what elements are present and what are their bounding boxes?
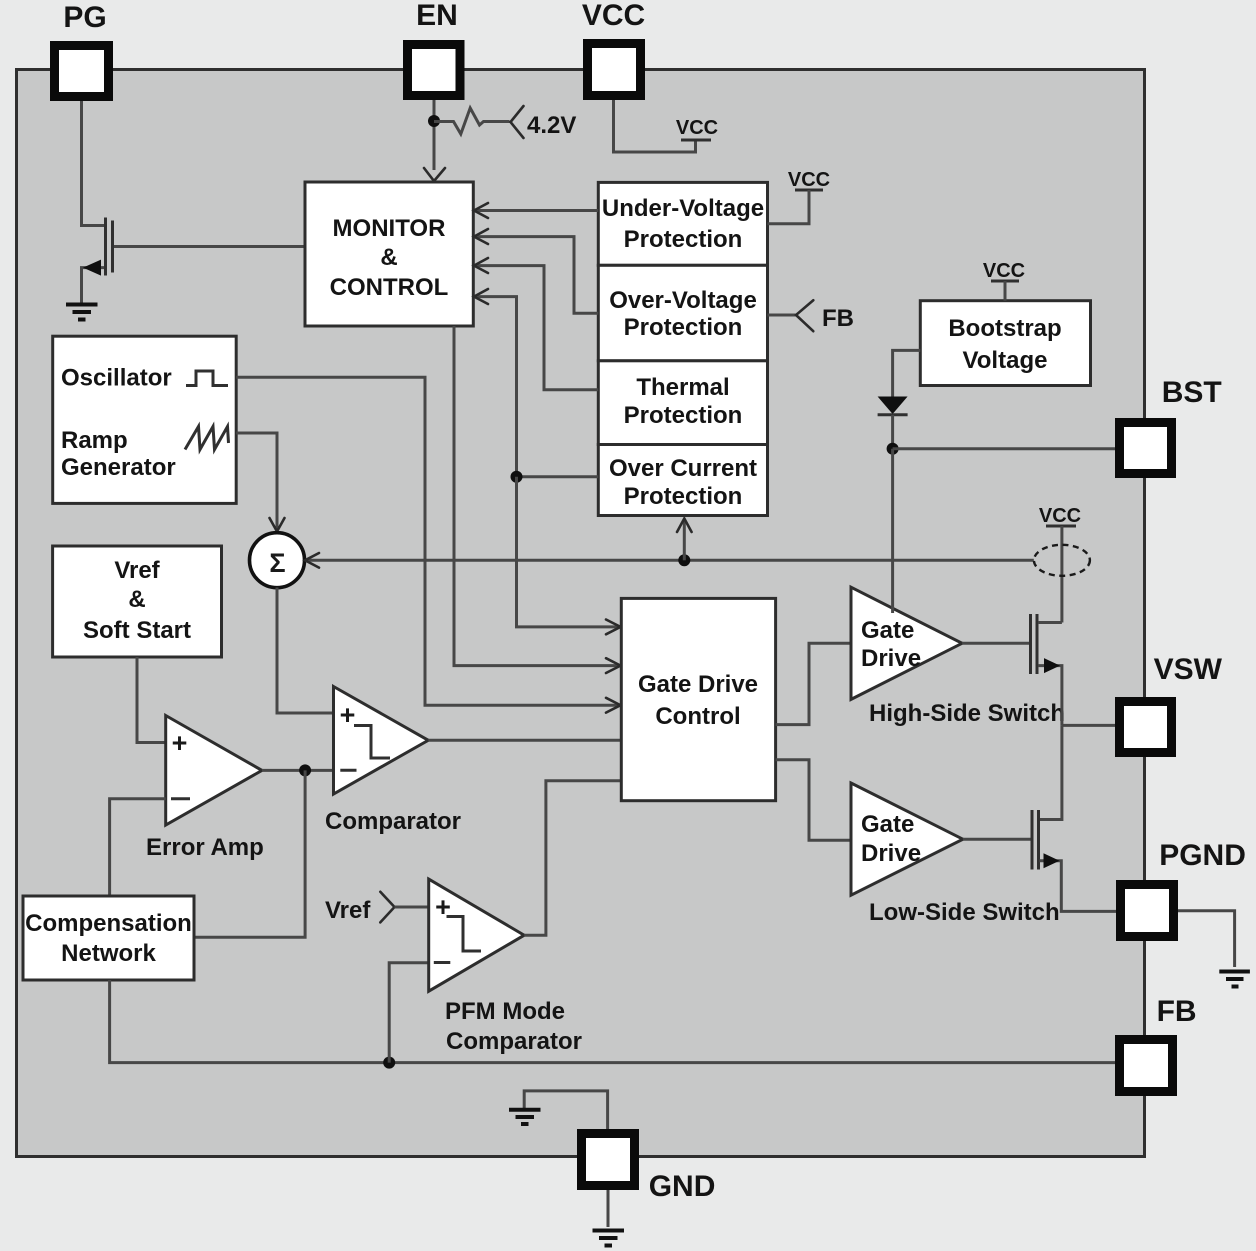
- svg-text:BST: BST: [1162, 376, 1222, 409]
- pin EN: [408, 45, 461, 96]
- diode D1: [878, 397, 908, 449]
- transistor Q3 Low-Side Switch: [1032, 810, 1116, 911]
- svg-text:MONITOR: MONITOR: [333, 215, 446, 242]
- svg-text:Σ: Σ: [269, 548, 285, 578]
- wire oscillator output to GDC in3: [236, 377, 620, 705]
- wire Vref box to error amp +: [137, 657, 166, 743]
- ground near GND pin: [509, 1091, 608, 1129]
- wire EN pin down: [433, 100, 436, 170]
- arrow into M&C (UVP): [474, 203, 488, 218]
- op-amp Error Amp: [146, 716, 264, 862]
- pin VSW: [1120, 702, 1172, 753]
- svg-text:CONTROL: CONTROL: [330, 274, 449, 301]
- VCC supply symbol near UVP: [768, 169, 831, 224]
- wire VSW node: [1062, 724, 1115, 727]
- node EN junction: [428, 115, 440, 127]
- svg-text:Low-Side Switch: Low-Side Switch: [869, 899, 1060, 926]
- current sense dashed ellipse: [1034, 545, 1090, 576]
- svg-text:GND: GND: [649, 1170, 716, 1203]
- arrow into summer right: [305, 553, 319, 568]
- svg-text:Protection: Protection: [624, 402, 743, 429]
- svg-text:Gate: Gate: [861, 617, 914, 644]
- wire Thermal to M&C: [474, 266, 598, 390]
- svg-text:VSW: VSW: [1154, 653, 1223, 686]
- FB input chevron at OVP: [768, 300, 855, 332]
- wire comp network bottom to FB line: [110, 980, 1115, 1063]
- svg-text:Voltage: Voltage: [963, 347, 1048, 374]
- wire junction down to Gate Drive Control in1: [517, 477, 621, 627]
- svg-text:+: +: [340, 700, 356, 730]
- svg-text:VCC: VCC: [582, 0, 645, 32]
- block Gate Drive Control: [621, 598, 775, 800]
- arrow into M&C (OCP): [474, 289, 488, 304]
- op-amp Comparator: [325, 687, 461, 836]
- block Oscillator / Ramp Generator: [53, 336, 237, 503]
- wire comp network to error amp minus: [110, 799, 166, 896]
- svg-text:Comparator: Comparator: [325, 808, 461, 835]
- svg-text:Generator: Generator: [61, 454, 176, 481]
- svg-text:Protection: Protection: [624, 483, 743, 510]
- svg-text:Gate: Gate: [861, 811, 914, 838]
- wire junction up to OCP: [683, 520, 686, 560]
- pin VCC: [588, 44, 641, 96]
- block Compensation Network: [23, 896, 194, 980]
- svg-text:Bootstrap: Bootstrap: [948, 315, 1061, 342]
- svg-text:FB: FB: [822, 305, 854, 332]
- wire PGND to external ground: [1178, 911, 1235, 967]
- node FB line junction: [383, 1057, 395, 1069]
- svg-text:VCC: VCC: [983, 260, 1025, 282]
- transistor Q2 High-Side Switch: [1031, 614, 1062, 725]
- wire VCC pin to VCC rail: [614, 100, 696, 152]
- wire UVP to M&C: [474, 209, 598, 212]
- wire Vref to PFM +: [395, 906, 429, 909]
- wire junction to BST pin: [893, 447, 1115, 450]
- svg-text:Compensation: Compensation: [25, 910, 192, 937]
- node sense line junction: [678, 554, 690, 566]
- wire Bootstrap to diode: [893, 350, 921, 397]
- svg-text:Oscillator: Oscillator: [61, 365, 172, 392]
- svg-text:Error Amp: Error Amp: [146, 834, 264, 861]
- svg-text:FB: FB: [1157, 995, 1197, 1028]
- svg-text:+: +: [172, 728, 188, 758]
- pin PG: [55, 46, 109, 97]
- svg-text:Ramp: Ramp: [61, 427, 128, 454]
- svg-text:Comparator: Comparator: [446, 1028, 582, 1055]
- svg-text:Thermal: Thermal: [636, 374, 729, 401]
- pin PGND: [1121, 885, 1174, 937]
- pin BST: [1120, 423, 1172, 474]
- op-amp PFM Mode Comparator: [429, 879, 582, 1055]
- arrow into M&C (Thermal): [474, 258, 488, 273]
- summer sigma circle: [250, 533, 305, 588]
- svg-text:PG: PG: [63, 1, 106, 34]
- svg-text:Protection: Protection: [624, 314, 743, 341]
- VCC supply symbol above Bootstrap: [983, 260, 1025, 301]
- wire Q1 gate to MONITOR & CONTROL: [114, 245, 305, 248]
- wire summer output to comparator +: [277, 588, 334, 714]
- arrow into GDC in2: [606, 658, 621, 673]
- svg-text:Under-Voltage: Under-Voltage: [602, 195, 764, 222]
- sawtooth waveform glyph: [185, 427, 229, 450]
- svg-text:High-Side Switch: High-Side Switch: [869, 700, 1065, 727]
- pin FB: [1120, 1040, 1173, 1092]
- svg-text:VCC: VCC: [676, 117, 718, 139]
- pulse waveform glyph: [186, 371, 228, 386]
- wire junction up to PFM minus: [389, 963, 429, 1063]
- wire PG pin to transistor drain: [82, 101, 105, 226]
- wire error amp output: [262, 769, 334, 772]
- block Bootstrap Voltage: [920, 301, 1090, 386]
- svg-text:PFM Mode: PFM Mode: [445, 998, 565, 1025]
- arrow into GDC in1: [606, 620, 621, 635]
- svg-text:Protection: Protection: [624, 226, 743, 253]
- svg-text:Drive: Drive: [861, 840, 921, 867]
- ground at PGND: [1219, 972, 1250, 987]
- svg-text:VCC: VCC: [1039, 505, 1081, 527]
- wire VSW down to low-side drain: [1039, 725, 1062, 819]
- arrow into OCP bottom: [677, 519, 692, 533]
- wire junction down to comp network right: [194, 770, 305, 937]
- wire ramp output to summer: [236, 433, 277, 529]
- node BST junction: [887, 443, 899, 455]
- wire GDC out2 to low gate drive: [776, 760, 851, 841]
- transistor Q1 PG pull-down (NMOS, gate right): [82, 218, 113, 305]
- svg-text:Vref: Vref: [114, 557, 160, 584]
- block Thermal Protection: [598, 361, 767, 445]
- amp Gate Drive low-side: [851, 783, 963, 895]
- svg-text:Network: Network: [61, 940, 156, 967]
- VCC supply symbol near VCC pin: [676, 117, 718, 140]
- wire high gate drive to MOSFET gate: [962, 642, 1029, 645]
- IC body outline: [17, 70, 1145, 1157]
- wire current sense line into summer: [307, 559, 1034, 562]
- ground below Q1: [66, 305, 98, 320]
- block Over Current Protection: [598, 445, 767, 516]
- wire M&C bottom to GDC in2: [454, 326, 620, 666]
- wire GDC out1 to high gate drive: [776, 643, 851, 724]
- 4.2V source chevron: [511, 106, 524, 138]
- svg-text:Gate Drive: Gate Drive: [638, 671, 758, 698]
- ground below GND pin: [593, 1190, 625, 1246]
- Vref chevron: [380, 892, 394, 923]
- arrow into GDC in3: [606, 698, 621, 713]
- wire OCP branch to M&C: [474, 297, 598, 477]
- block Over-Voltage Protection: [598, 265, 767, 361]
- svg-text:Over-Voltage: Over-Voltage: [609, 287, 757, 314]
- resistor 4.2V clamp: [434, 108, 510, 134]
- VCC supply symbol above sense ellipse: [1039, 505, 1081, 623]
- node OCP branch junction: [511, 471, 523, 483]
- svg-text:Vref: Vref: [325, 897, 371, 924]
- block Under-Voltage Protection: [598, 182, 767, 265]
- svg-text:PGND: PGND: [1159, 839, 1246, 872]
- arrow into summer top: [270, 518, 285, 532]
- arrow into MONITOR & CONTROL top: [424, 168, 445, 181]
- wire OVP to M&C: [474, 237, 598, 314]
- node error amp output junction: [299, 764, 311, 776]
- block MONITOR & CONTROL: [305, 182, 473, 326]
- svg-text:4.2V: 4.2V: [527, 112, 576, 139]
- arrow into M&C (OVP): [474, 229, 488, 244]
- amp Gate Drive high-side: [851, 587, 962, 699]
- block Vref & Soft Start: [53, 546, 222, 657]
- wire PFM output to GDC: [524, 781, 621, 935]
- svg-text:&: &: [380, 244, 397, 271]
- svg-text:VCC: VCC: [788, 169, 830, 191]
- svg-text:&: &: [128, 586, 145, 613]
- svg-text:Over Current: Over Current: [609, 455, 757, 482]
- wire low gate drive to MOSFET gate: [963, 838, 1031, 841]
- svg-text:Control: Control: [655, 703, 740, 730]
- svg-text:Drive: Drive: [861, 645, 921, 672]
- svg-text:Soft Start: Soft Start: [83, 617, 191, 644]
- pin GND: [582, 1134, 635, 1186]
- svg-text:EN: EN: [416, 0, 458, 32]
- wire comparator output to GDC: [428, 739, 621, 742]
- wire junction down to high gate drive top: [891, 449, 894, 613]
